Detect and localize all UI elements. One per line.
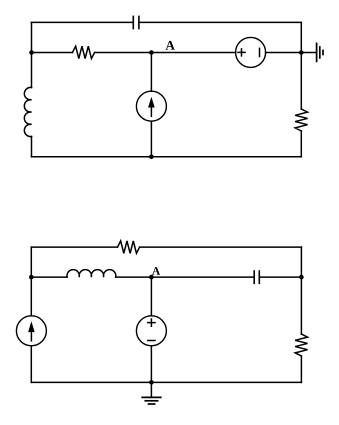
- node A dot: [149, 50, 154, 55]
- wire mid rail to node A: [116, 276, 152, 278]
- ground G2: [142, 397, 161, 404]
- node A dot: [149, 275, 154, 280]
- wire mid rail source to right: [266, 52, 302, 54]
- wire mid rail capacitor to right: [259, 276, 301, 278]
- wire middle vertical upper: [150, 53, 152, 92]
- inductor L1: [24, 87, 31, 136]
- wire right vertical lower: [300, 131, 302, 157]
- wire right vertical upper: [300, 247, 302, 334]
- junction dot right: [299, 50, 304, 55]
- current source I2: [16, 316, 46, 346]
- wire left vertical lower: [31, 137, 33, 157]
- inductor L2: [67, 270, 116, 277]
- voltage source V1: [236, 37, 266, 67]
- wire right vertical upper: [300, 22, 302, 109]
- node A label: [152, 267, 160, 275]
- node junction dot left: [29, 50, 34, 55]
- resistor R4: [295, 334, 307, 356]
- wire left vertical lower: [30, 346, 32, 383]
- wire middle vertical lower: [150, 346, 152, 383]
- wire top rail left segment: [31, 246, 117, 248]
- junction dot left: [29, 275, 34, 280]
- wire mid rail node A to source: [151, 52, 235, 54]
- resistor R1: [73, 46, 95, 58]
- voltage source V2: [136, 316, 166, 346]
- wire mid rail to node A: [95, 52, 152, 54]
- wire top rail right segment: [140, 246, 302, 248]
- wire bottom rail: [31, 381, 301, 383]
- wire left vertical upper: [30, 247, 32, 316]
- wire left vertical upper: [31, 22, 33, 87]
- resistor R2: [295, 109, 307, 131]
- wire mid rail node A to capacitor: [151, 276, 254, 278]
- junction dot bottom: [149, 155, 154, 160]
- capacitor C1: [133, 16, 139, 28]
- wire middle vertical lower: [150, 121, 152, 157]
- resistor R3: [118, 241, 140, 253]
- ground G1: [317, 43, 323, 61]
- capacitor C2: [254, 271, 259, 283]
- junction dot bottom: [149, 380, 154, 385]
- wire top rail right segment: [139, 21, 301, 23]
- wire mid rail left: [32, 52, 73, 54]
- wire bottom rail: [32, 156, 302, 158]
- wire mid rail left: [31, 276, 67, 278]
- current source I1: [136, 91, 166, 121]
- wire right vertical lower: [300, 356, 302, 382]
- ground G2 stub: [150, 382, 152, 397]
- node A label: [166, 41, 175, 50]
- wire middle vertical upper: [150, 277, 152, 316]
- wire top rail left segment: [32, 21, 134, 23]
- junction dot right: [299, 275, 304, 280]
- wire stub to ground: [301, 52, 316, 54]
